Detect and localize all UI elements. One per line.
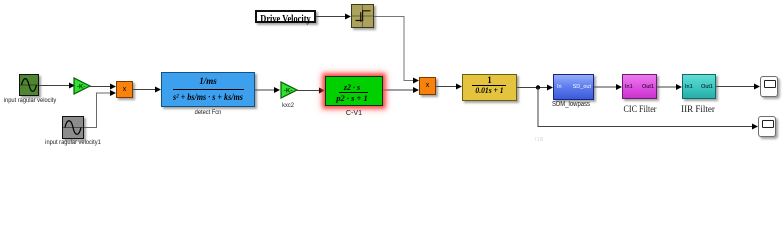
quantizer block [351,4,374,28]
wire sine2 to product1 bottom input [84,90,116,128]
product P2 [419,77,436,95]
wire gain1 to product1 top input [90,84,116,90]
wire quantizer down to product2 top input [374,17,419,84]
wire junction down to Scope2 [538,88,758,130]
gain kxc2 triangle [280,81,298,98]
wire C-V1 to product2 bottom input [383,87,419,93]
wire product1 to detect Fcn [133,87,161,93]
label: detect Fcn [168,109,247,116]
constant Drive Velocity [255,10,316,23]
label: kxc2 [257,102,319,109]
svg-text:-K-: -K- [77,83,86,90]
label: C-V1 [321,109,388,116]
zero-pole C-V1 (selected, red glow) [325,76,383,106]
wire gain kxc2 to C-V1 [297,88,325,94]
wire layer [0,0,784,154]
wire CIC Filter to IIR Filter [657,84,682,90]
wire SDM_lowpass to CIC Filter [594,84,622,90]
subsystem CIC Filter [622,74,657,99]
label: CIC Filter [610,107,670,114]
subsystem IIR Filter [682,74,716,99]
svg-text:-K-: -K- [284,87,293,94]
product P1 [116,81,133,98]
wire IIR Filter to Scope1 [716,84,760,90]
scope Scope2 [758,116,776,137]
gain G1 triangle [73,77,91,94]
label: input ragular velocity1 [33,139,112,146]
sine wave source 1 [19,74,39,96]
transfer fcn detect Fcn [161,72,255,107]
wire Drive Velocity to quantizer [316,14,351,20]
junction node [536,85,540,89]
label: input ragular velocity [0,97,70,104]
faint artifact mark [535,137,543,143]
wire yellow transfer fcn to SDM_lowpass with junction [517,85,553,91]
wire detect Fcn to gain kxc2 [255,87,280,93]
subsystem SDM_lowpass [553,74,594,100]
label: IIR Filter [665,107,732,114]
wire product2 to yellow transfer fcn [436,84,462,90]
sine wave source 2 [62,116,84,139]
scope Scope1 [760,76,778,97]
label: SDM_lowpass [541,101,601,108]
transfer fcn 1/(0.01s+1) [462,74,517,101]
wire sine1 to gain1 [39,83,75,89]
